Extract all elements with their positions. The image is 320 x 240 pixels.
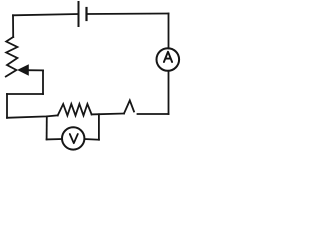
- wire resistor to bottom-left corner: [7, 115, 58, 117]
- wire voltmeter branch right riser: [98, 114, 100, 139]
- switch K (open key blade): [124, 100, 134, 113]
- rheostat RH zigzag: [6, 37, 18, 77]
- resistor R1 zigzag: [58, 104, 92, 116]
- wire top-left segment: [13, 14, 79, 15]
- battery B1 short plate: [85, 8, 87, 20]
- wire horizontal of lower-left step: [7, 93, 43, 95]
- voltmeter V1 label letter V: [70, 134, 78, 143]
- ammeter A1 label letter A: [164, 52, 172, 62]
- wire left vertical from top corner: [12, 15, 14, 37]
- ammeter A1 circle: [157, 48, 180, 71]
- rheostat RH wiper arrow head: [18, 65, 28, 75]
- wire top-right segment: [87, 13, 169, 16]
- wire left riser of lower-left step: [6, 94, 8, 118]
- wire switch to resistor: [92, 113, 124, 116]
- wire wiper arm horizontal: [27, 69, 44, 71]
- wire right upper segment: [168, 14, 170, 49]
- wire wiper arm riser: [42, 70, 44, 94]
- wire voltmeter branch left drop: [46, 116, 48, 139]
- wire voltmeter branch left horizontal: [47, 138, 62, 140]
- voltmeter V1 circle: [62, 127, 84, 149]
- battery B1 long plate: [78, 2, 80, 26]
- wire right lower segment: [168, 71, 170, 114]
- wire bottom-right segment: [138, 113, 169, 115]
- wire voltmeter branch right horizontal: [84, 138, 99, 141]
